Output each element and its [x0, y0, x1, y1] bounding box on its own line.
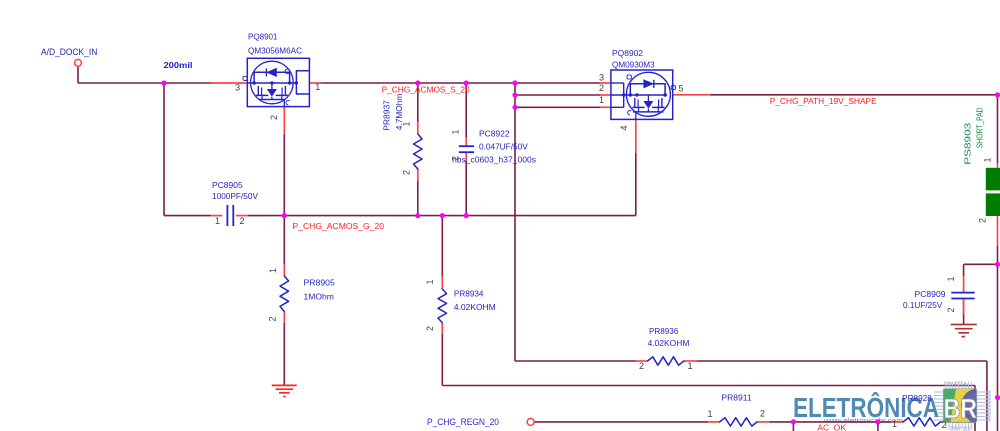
svg-text:PR8936: PR8936	[649, 327, 679, 336]
svg-text:PC8922: PC8922	[479, 130, 510, 139]
svg-text:PR8905: PR8905	[304, 278, 336, 287]
svg-text:3: 3	[599, 72, 604, 82]
svg-text:PR8937: PR8937	[382, 100, 391, 131]
svg-text:PC8905: PC8905	[212, 181, 243, 190]
svg-text:PC8909: PC8909	[915, 290, 947, 299]
svg-text:1: 1	[687, 361, 692, 371]
svg-text:nbs_c0603_h37_000s: nbs_c0603_h37_000s	[452, 156, 536, 165]
svg-text:0.1UF/25V: 0.1UF/25V	[903, 301, 943, 310]
svg-text:1: 1	[983, 157, 993, 162]
svg-text:01a 417-u: 01a 417-u	[944, 382, 967, 388]
svg-text:1: 1	[450, 129, 460, 134]
svg-text:PQ8901: PQ8901	[248, 33, 278, 42]
svg-text:PR8934: PR8934	[454, 290, 484, 299]
svg-text:5: 5	[678, 84, 683, 94]
svg-text:2: 2	[239, 216, 244, 226]
svg-text:1: 1	[892, 419, 897, 429]
svg-text:1: 1	[599, 95, 604, 105]
svg-text:1: 1	[268, 268, 278, 273]
svg-text:2: 2	[760, 409, 765, 419]
svg-text:PR8911: PR8911	[721, 393, 752, 402]
svg-text:1MOhm: 1MOhm	[304, 292, 335, 301]
svg-text:2: 2	[977, 218, 987, 223]
svg-text:1: 1	[946, 276, 956, 281]
svg-text:QM0930M3: QM0930M3	[612, 60, 655, 69]
svg-text:1: 1	[402, 121, 412, 126]
svg-text:2: 2	[267, 316, 277, 321]
svg-text:1: 1	[707, 409, 712, 419]
svg-text:P_CHG_ACMOS_G_20: P_CHG_ACMOS_G_20	[293, 221, 385, 231]
svg-text:2: 2	[941, 420, 946, 430]
svg-text:0.047UF/50V: 0.047UF/50V	[479, 143, 528, 152]
svg-text:PR8928: PR8928	[902, 394, 932, 403]
svg-text:PQ8902: PQ8902	[612, 49, 644, 58]
svg-text:P_CHG_ACMOS_S_20: P_CHG_ACMOS_S_20	[382, 84, 470, 94]
svg-text:2: 2	[269, 115, 279, 120]
svg-text:3: 3	[235, 82, 240, 92]
svg-text:4.02KOHM: 4.02KOHM	[454, 303, 496, 312]
svg-text:2: 2	[450, 156, 460, 161]
svg-text:4: 4	[619, 125, 629, 130]
svg-text:1: 1	[425, 279, 435, 284]
svg-text:2: 2	[425, 326, 435, 331]
svg-text:AC_OK: AC_OK	[817, 423, 846, 431]
svg-text:4.02KOHM: 4.02KOHM	[648, 339, 690, 348]
svg-text:SHORT_PAD: SHORT_PAD	[976, 107, 985, 148]
svg-text:2: 2	[946, 307, 956, 312]
svg-text:200mil: 200mil	[164, 60, 193, 70]
svg-text:1000PF/50V: 1000PF/50V	[212, 192, 259, 201]
svg-text:PS8903: PS8903	[964, 122, 973, 165]
svg-text:A/D_DOCK_IN: A/D_DOCK_IN	[41, 47, 97, 57]
svg-text:QM3056M6AC: QM3056M6AC	[248, 46, 302, 55]
svg-text:P_CHG_REGN_20: P_CHG_REGN_20	[427, 417, 499, 427]
svg-text:2: 2	[639, 361, 644, 371]
svg-text:1: 1	[215, 216, 220, 226]
svg-text:1: 1	[315, 82, 320, 92]
svg-text:2097 110: 2097 110	[950, 427, 971, 431]
svg-text:2: 2	[599, 83, 604, 93]
svg-text:2: 2	[402, 170, 412, 175]
svg-text:P_CHG_PATH_19V_SHAPE: P_CHG_PATH_19V_SHAPE	[770, 96, 877, 106]
svg-text:BR: BR	[944, 393, 978, 424]
